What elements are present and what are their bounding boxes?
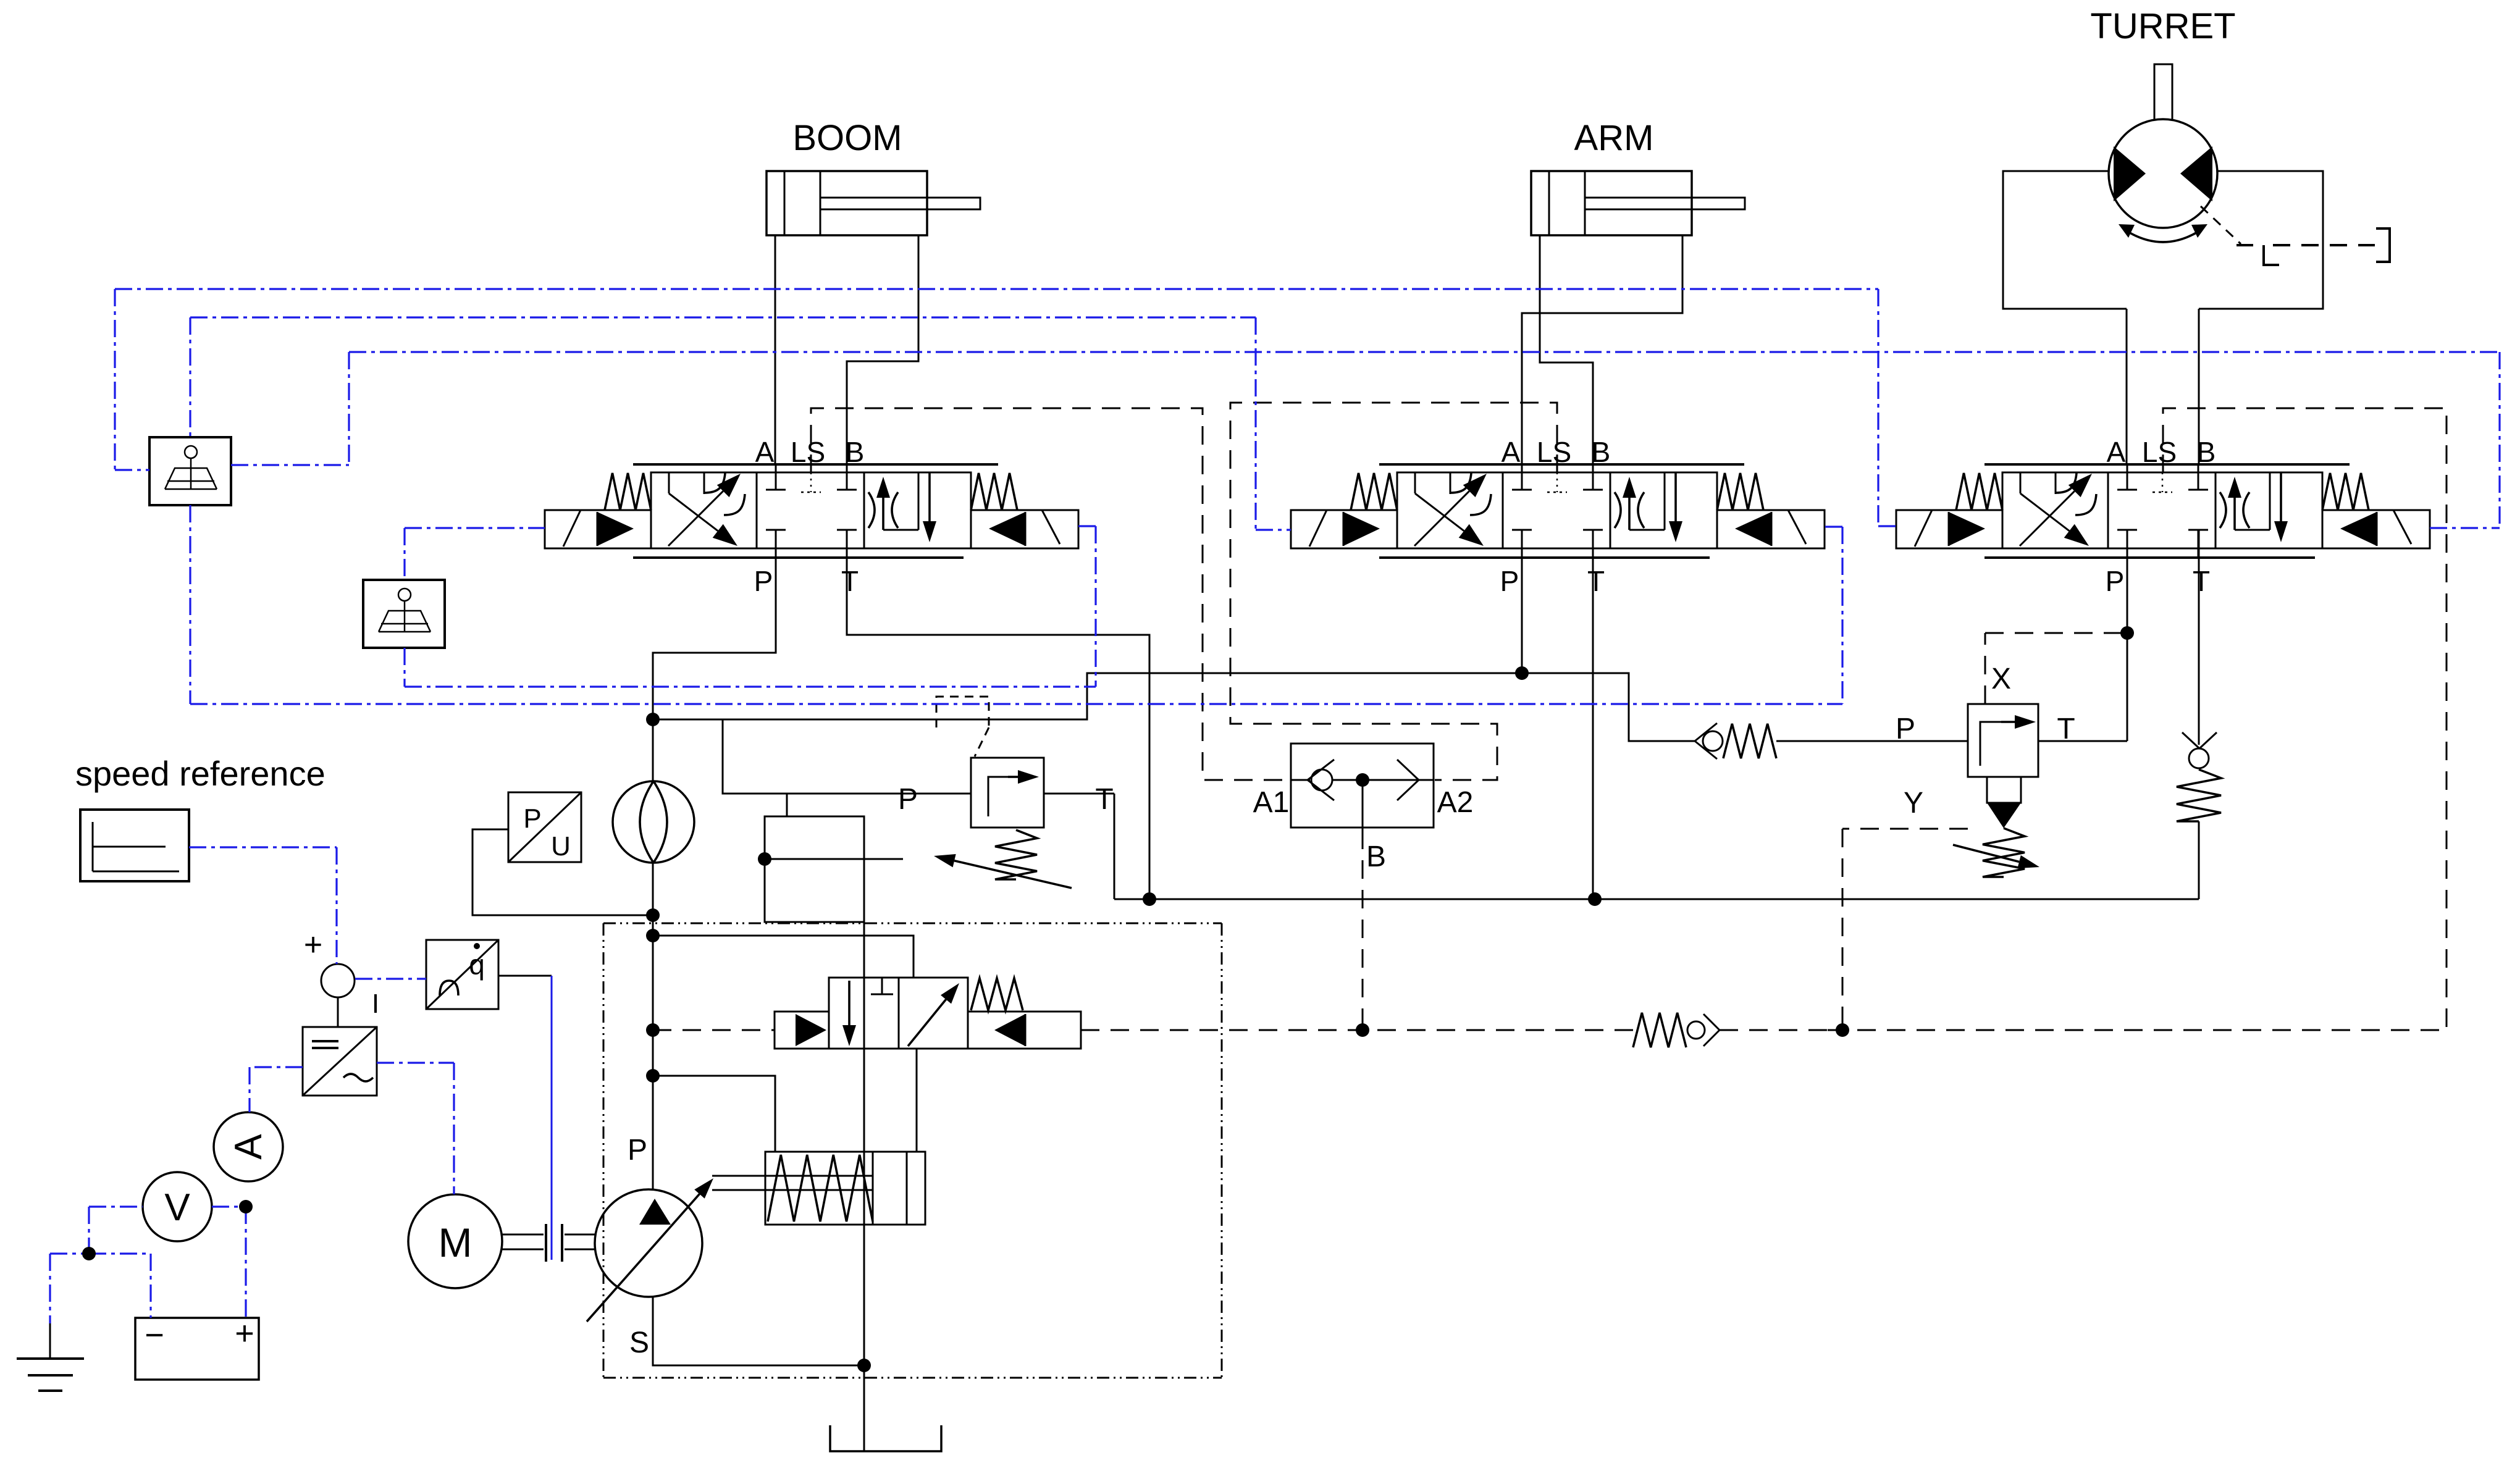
wire T collector: [1114, 899, 2199, 900]
svg-text:U: U: [551, 831, 571, 861]
svg-text:I: I: [372, 989, 379, 1019]
wire blue J2-bottom to BOOM-R solenoid: [405, 526, 1096, 687]
label P at relief: [898, 783, 918, 816]
svg-text:−: −: [145, 1317, 164, 1354]
wire BOOM cylinder B line: [847, 235, 918, 464]
svg-text:speed reference: speed reference: [75, 754, 325, 793]
valve V-TURRET proportional directional: [1896, 436, 2430, 597]
sensor speed q: [426, 940, 498, 1009]
wire column to 3way valve: [653, 936, 913, 978]
node stroker feedback: [758, 852, 771, 866]
label P at X-valve: [1896, 713, 1915, 745]
node X pilot junction: [2120, 626, 2134, 640]
wire blue J1-bottom to ARM-R solenoid: [190, 505, 1842, 704]
node pilot takeoff junction: [646, 1023, 660, 1037]
valve V-BOOM proportional directional: [545, 436, 1078, 597]
flow meter FM: [613, 781, 694, 863]
wire X-valve T to TURRET P: [2038, 740, 2127, 742]
wire blue J2-top to BOOM-L solenoid: [405, 528, 545, 580]
svg-text:LS: LS: [791, 436, 825, 468]
svg-text:T: T: [1587, 565, 1605, 597]
wire X pilot dashed: [1985, 633, 2127, 704]
wire TURRET motor B line: [2198, 309, 2200, 464]
svg-text:A: A: [1501, 436, 1521, 468]
wire flow meter top: [652, 719, 654, 781]
wire TURRET P stem: [2127, 530, 2128, 741]
wire P/U to column: [472, 829, 653, 915]
svg-text:ARM: ARM: [1574, 118, 1654, 158]
speed reference box: [80, 810, 189, 881]
svg-text:A: A: [227, 1134, 270, 1160]
node shuttle B junction: [1356, 773, 1369, 787]
node P/U junction: [646, 908, 660, 922]
label S at pump: [629, 1326, 649, 1359]
node ARM T junction: [1588, 892, 1602, 906]
wire 3way to stroker right: [916, 1049, 918, 1152]
svg-text:T: T: [2193, 565, 2210, 597]
wire relief T line: [1044, 793, 1114, 795]
hydraulic motor TURRET: [2003, 64, 2390, 309]
check valve CV1 with spring: [1695, 723, 1968, 759]
label T at relief: [1095, 783, 1113, 816]
svg-text:BOOM: BOOM: [792, 118, 902, 158]
wire blue summing to q box: [355, 978, 426, 979]
label A1: [1253, 786, 1290, 819]
label X: [1991, 663, 2011, 695]
svg-text:LS: LS: [1537, 436, 1571, 468]
wire Y drain dashed: [1842, 829, 1968, 1030]
meter A: [214, 1112, 283, 1181]
summing junction: [304, 927, 379, 1019]
svg-text:+: +: [304, 927, 322, 963]
wire BOOM T line: [847, 530, 1149, 899]
svg-text:P: P: [2106, 565, 2125, 597]
tank symbol: [830, 1425, 941, 1451]
wire ARM cylinder A line: [1522, 235, 1682, 464]
wire stroker feedback line: [765, 858, 903, 860]
wire BOOM P to pump: [653, 530, 776, 719]
wire q sensor to shaft: [498, 976, 552, 1260]
wire tank riser: [863, 1365, 865, 1451]
sensor P/U: [508, 792, 581, 862]
check valve CV2 TURRET T with spring: [2177, 530, 2221, 899]
joystick J1: [149, 437, 231, 505]
node ground junction: [82, 1247, 96, 1260]
svg-text:TURRET: TURRET: [2090, 6, 2235, 46]
svg-text:P: P: [1896, 713, 1915, 745]
node valve supply junction: [646, 929, 660, 942]
wire BOOM cylinder A line: [775, 235, 776, 464]
svg-text:S: S: [629, 1326, 649, 1359]
node pilot Y junction: [1836, 1023, 1849, 1037]
svg-text:+: +: [235, 1315, 254, 1352]
cylinder ARM: [1531, 171, 1745, 235]
node ARM P junction: [1515, 666, 1529, 680]
wire main pressure column: [652, 863, 654, 1189]
label speed reference: [75, 754, 325, 793]
meter V: [143, 1172, 212, 1241]
wire pump suction S: [653, 1297, 864, 1365]
svg-text:T: T: [2057, 713, 2075, 745]
svg-text:T: T: [1095, 783, 1113, 816]
svg-text:Y: Y: [1904, 787, 1923, 819]
pump stroking spring box: [712, 1152, 925, 1225]
motor M: [408, 1194, 502, 1288]
label ARM: [1574, 118, 1654, 158]
battery: [135, 1315, 259, 1380]
valve V-ARM proportional directional: [1291, 436, 1825, 597]
node stroker junction: [646, 1069, 660, 1083]
joystick J2: [363, 580, 445, 648]
cylinder BOOM: [766, 171, 980, 235]
wire pilot trunk dashed right: [1081, 1029, 1633, 1031]
wire pilot trunk dashed left: [653, 1029, 775, 1031]
wire stroker branch: [653, 1076, 775, 1152]
label A2: [1437, 786, 1474, 819]
label Y: [1904, 787, 1923, 819]
node pilot B junction: [1356, 1023, 1369, 1037]
svg-text:B: B: [1366, 840, 1386, 873]
node S junction: [857, 1359, 871, 1372]
svg-text:P: P: [754, 565, 773, 597]
svg-text:A2: A2: [1437, 786, 1474, 819]
wire ARM P stem: [1521, 530, 1523, 673]
stroking cylinder box: [765, 816, 864, 922]
svg-text:LS: LS: [2142, 436, 2177, 468]
shaft coupling: [502, 1224, 595, 1262]
wire P trunk: [653, 673, 1695, 741]
svg-text:B: B: [2197, 436, 2216, 468]
wire stroker top stub: [786, 794, 788, 816]
svg-text:B: B: [846, 436, 865, 468]
label B: [1366, 840, 1386, 873]
svg-text:M: M: [439, 1220, 472, 1265]
wire blue trunk3 J1-right to TURRET-R solenoid: [231, 352, 2500, 528]
wire BOOM LS dashed: [811, 408, 1290, 780]
wire ARM cylinder B line: [1540, 235, 1593, 464]
wire blue converter to M motor: [377, 1063, 454, 1194]
svg-text:P: P: [523, 803, 541, 834]
wire ARM T stem: [1592, 530, 1594, 899]
valve 3way pump control: [775, 978, 1081, 1049]
wire TURRET LS dashed: [2163, 408, 2446, 1030]
wire shuttle B down: [1362, 780, 1364, 1030]
svg-text:P: P: [1500, 565, 1519, 597]
wire P sense branch: [653, 719, 971, 794]
label BOOM: [792, 118, 902, 158]
wire blue V to ground and battery minus: [50, 1207, 151, 1323]
wire blue trunk2 J1-top to ARM-L solenoid: [190, 317, 1291, 530]
svg-text:P: P: [898, 783, 918, 816]
node BOOM T junction: [1143, 892, 1156, 906]
wire blue converter to A meter: [250, 1067, 303, 1112]
wire ARM LS dashed: [1230, 403, 1557, 780]
svg-text:P: P: [628, 1134, 647, 1167]
pump main variable: [587, 1178, 713, 1322]
wire relief pilot dashed: [936, 697, 989, 756]
svg-text:A: A: [755, 436, 775, 468]
label TURRET: [2090, 6, 2235, 46]
power unit boundary: [603, 923, 1222, 1378]
valve X pressure control: [1953, 704, 2039, 877]
svg-text:A1: A1: [1253, 786, 1290, 819]
label T at X-valve: [2057, 713, 2075, 745]
relief valve R1: [934, 758, 1072, 888]
wire blue speed reference: [189, 847, 337, 964]
svg-text:B: B: [1592, 436, 1611, 468]
check valve CV3 pilot with spring: [1633, 1013, 2445, 1047]
wire TURRET motor A line: [2126, 309, 2128, 464]
label P at pump: [628, 1134, 647, 1167]
shuttle valve A1-A2-B: [1291, 744, 1434, 828]
ground: [17, 1322, 84, 1391]
converter DC-AC: [303, 1027, 377, 1096]
node meter junction: [239, 1200, 253, 1213]
svg-text:T: T: [841, 565, 859, 597]
wire summing to converter: [337, 997, 339, 1027]
svg-text:X: X: [1991, 663, 2011, 695]
node pump P junction: [646, 713, 660, 726]
wire blue trunk1 J1-left to TURRET-L solenoid: [115, 289, 1896, 526]
wire 3way to stroker left: [863, 922, 865, 1365]
wire blue A to battery plus: [212, 1207, 246, 1318]
svg-text:q: q: [469, 949, 485, 981]
svg-text:V: V: [164, 1186, 190, 1229]
svg-text:A: A: [2107, 436, 2126, 468]
wire relief T riser: [1114, 794, 1115, 899]
